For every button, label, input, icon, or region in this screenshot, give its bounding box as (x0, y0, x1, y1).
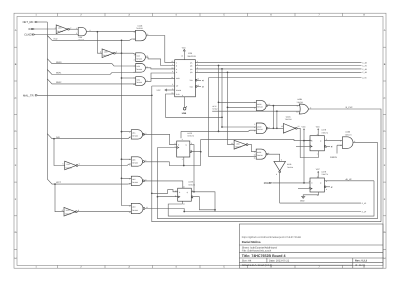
junction node U6D H2 (183, 211, 185, 213)
svg-text:W/A0: W/A0 (56, 61, 62, 64)
svg-text:10: 10 (296, 110, 298, 113)
inverter U2D 74HC04 (62, 207, 79, 216)
wire U6B out to FFA reset line (144, 162, 200, 166)
wire CLKEN to AND U3A pin2 (35, 33, 78, 35)
svg-text:U5B: U5B (182, 112, 187, 115)
svg-text:https://github.com/dmsc/timeke: https://github.com/dmsc/timekeeper/cc/74… (242, 236, 301, 239)
junction node on gateB out (273, 127, 275, 129)
svg-text:C: C (384, 97, 386, 100)
svg-text:12: 12 (197, 78, 199, 81)
wire U10 out to gate U7C in1 (248, 145, 256, 152)
wire PRE to FF2 D (272, 182, 310, 184)
wire ACT tap down to inverter U2D (55, 184, 64, 212)
bus entry wire A/B (47, 134, 131, 139)
svg-text:C_4B: C_4B (362, 71, 367, 74)
wire tap to gate U6A in1 (122, 131, 132, 133)
svg-text:2: 2 (254, 150, 255, 153)
wire to gate U7B in1 (222, 126, 256, 128)
bus entry wire W/A0 (47, 59, 135, 66)
svg-text:D: D (15, 130, 17, 133)
wire MAL_TR top to U1 UP pin (152, 85, 175, 87)
svg-text:74HC04: 74HC04 (65, 167, 71, 170)
svg-text:W/A1: W/A1 (56, 72, 62, 75)
bus entry CD (47, 36, 52, 41)
svg-text:2: 2 (254, 106, 255, 109)
wire vertical main left drop (122, 40, 132, 205)
bus entry wire W/A1 (47, 70, 135, 75)
svg-text:5: 5 (254, 129, 255, 132)
U1 TCU pin 12 (195, 78, 203, 82)
svg-text:10: 10 (129, 183, 131, 186)
svg-text:C: C (15, 97, 17, 100)
junction node QC drop (221, 68, 223, 70)
svg-text:9: 9 (281, 159, 282, 162)
junction node U3A out (97, 31, 99, 33)
wire H2 net with label (184, 210, 367, 213)
hierarchical label PRE (264, 182, 272, 185)
wire U3A out to OR U4B (87, 31, 136, 33)
junction node QB drop (218, 65, 220, 67)
hierarchical label MAL_TR (23, 94, 38, 97)
svg-text:9: 9 (297, 105, 298, 108)
svg-text:U42B: U42B (297, 98, 302, 101)
wire MAL_TR vertical long (152, 86, 381, 222)
wire FF2 Q out with label (324, 178, 374, 181)
svg-text:1: 1 (129, 131, 130, 134)
U1 CMD pin wire (151, 78, 175, 80)
svg-text:U478: U478 (321, 170, 326, 173)
nand gate U6B (129, 157, 146, 167)
wire FFB Qbar drop (193, 197, 215, 210)
svg-text:File: SubHoursUnit_a.sch: File: SubHoursUnit_a.sch (242, 250, 272, 253)
svg-text:5: 5 (63, 163, 64, 166)
svg-text:4: 4 (134, 65, 135, 68)
svg-text:74HC74: 74HC74 (321, 131, 328, 134)
power symbol VCC above U1 (182, 46, 187, 59)
wire QB drop vertical (218, 66, 220, 132)
power symbol VCC at FF1 S (316, 125, 321, 135)
border row ticks left (14, 47, 17, 249)
junction node buffer in (276, 127, 278, 129)
wire tap to gate U6C in1 (122, 177, 132, 179)
wire FFA reset stem (183, 157, 185, 166)
wire FFB D jog (152, 190, 178, 194)
wire FFA Q down to FFB Q (190, 145, 194, 192)
svg-text:3: 3 (100, 50, 101, 53)
wire U1 QB output (195, 65, 361, 67)
junction node FFB clk (157, 196, 159, 198)
junction node MAL_TR (151, 94, 153, 96)
and gate U5B (134, 64, 148, 75)
svg-text:VCC: VCC (182, 46, 187, 49)
svg-text:A/B: A/B (56, 136, 60, 139)
svg-text:C_4B: C_4B (362, 68, 367, 71)
svg-text:U478: U478 (187, 132, 192, 135)
svg-text:10: 10 (254, 153, 256, 156)
svg-text:U4C8: U4C8 (257, 125, 261, 128)
wire U8 out long with label (309, 106, 382, 222)
junction node FF2 D (303, 182, 305, 184)
svg-text:U478: U478 (188, 181, 193, 184)
svg-text:Size: A4: Size: A4 (242, 259, 252, 262)
wire FFB R to H216 to FF2 Q riser (168, 181, 374, 216)
svg-text:13: 13 (129, 211, 131, 214)
svg-text:5: 5 (134, 71, 135, 74)
junction node g2 in1 tap (121, 158, 123, 160)
wire to gate U7A in1 (219, 101, 257, 103)
svg-text:U42B: U42B (287, 163, 292, 166)
junction node H2 join (214, 209, 216, 211)
power symbol VCC mid (feeds FF1 D / FF2 D) (302, 125, 307, 183)
nand gate U6C (129, 176, 147, 186)
svg-text:1: 1 (55, 26, 56, 29)
svg-text:W/A2: W/A2 (56, 81, 62, 84)
svg-text:9: 9 (340, 140, 341, 143)
svg-text:Title: 74HC7652B Board 4: Title: 74HC7652B Board 4 (242, 254, 286, 258)
svg-text:DS/EN: DS/EN (330, 156, 337, 159)
svg-text:8: 8 (276, 173, 277, 176)
and gate U5C (133, 77, 148, 86)
svg-text:2: 2 (129, 136, 130, 139)
svg-text:74HC74: 74HC74 (187, 135, 194, 138)
svg-text:U14B: U14B (138, 24, 143, 27)
wire MAL_TR to vertical (38, 94, 152, 96)
svg-text:74HC74: 74HC74 (345, 134, 352, 137)
svg-text:E_4P: E_4P (362, 210, 367, 213)
wire row E vertical to gate U7C in2 (209, 78, 257, 157)
border row ticks right (383, 47, 386, 249)
svg-text:74HC74: 74HC74 (321, 173, 328, 176)
svg-text:U478: U478 (321, 129, 326, 132)
svg-text:11: 11 (254, 156, 256, 159)
svg-text:74HC32: 74HC32 (297, 101, 304, 104)
inverter U2B 74HC04 (100, 49, 117, 58)
svg-text:74HC04: 74HC04 (285, 118, 292, 121)
wire gate U6A out to FFA D (143, 134, 177, 144)
wire U1 QC output (195, 68, 361, 70)
svg-text:S_7B: S_7B (362, 64, 367, 67)
border column ticks bottom (58, 265, 343, 268)
wire U5C out to U1 pin D (145, 73, 174, 81)
wire NET_RD to bus (38, 21, 48, 23)
hierarchical label WR (28, 28, 34, 31)
and gate U3A 74HC08 (76, 27, 90, 42)
svg-text:74HC193: 74HC193 (187, 55, 196, 58)
svg-text:U4C8: U4C8 (257, 103, 261, 106)
svg-text:8: 8 (147, 80, 148, 83)
inverter U2A 74HC04 (55, 25, 72, 34)
junction node PL route joins QC drop (221, 116, 223, 118)
svg-text:/5_CUP: /5_CUP (346, 106, 354, 109)
svg-text:13: 13 (281, 125, 283, 128)
svg-text:Date: 2023-05-22: Date: 2023-05-22 (269, 259, 290, 262)
junction node at 121.5,78 (121, 77, 123, 79)
junction node FFA reset (183, 165, 185, 167)
svg-text:9: 9 (129, 177, 130, 180)
svg-text:VCC: VCC (157, 89, 162, 92)
svg-text:74HC08: 74HC08 (78, 38, 84, 41)
wire FFA Qbar loop down (200, 152, 202, 166)
svg-text:PRE: PRE (264, 182, 269, 185)
svg-text:H: H (384, 257, 386, 260)
wire FFA clk / FFB clk vertical (158, 148, 378, 219)
inverter U2C 74HC04 (63, 161, 80, 170)
wire FFA Qbar up and right to FF1 D (192, 140, 312, 152)
svg-text:11: 11 (231, 142, 233, 145)
svg-text:/ACT: /ACT (56, 181, 62, 184)
svg-text:3: 3 (254, 123, 255, 126)
wire U4B out right and down to U1 pin A (146, 36, 174, 63)
junction node CD at vertical (121, 39, 123, 41)
bus entry wire ACT (47, 179, 131, 184)
wire U5B out to U1 pin C (145, 68, 174, 69)
svg-text:VCC: VCC (316, 168, 321, 171)
svg-text:VCC: VCC (316, 125, 321, 128)
svg-text:2: 2 (134, 59, 135, 62)
wire U1 QA output (195, 61, 361, 63)
U1 GND pin stub with unconnect circle (182, 97, 187, 115)
svg-text:2: 2 (76, 32, 77, 35)
svg-text:C_4B: C_4B (362, 61, 367, 64)
svg-text:U42A: U42A (286, 115, 291, 118)
flip-flop FF1 U13A 74HC74 (309, 129, 328, 156)
border column ticks top (58, 13, 343, 16)
svg-text:74HC04: 74HC04 (103, 54, 109, 57)
svg-text:5: 5 (129, 163, 130, 166)
wire VCC branch to FF1 D (304, 140, 310, 142)
svg-text:9: 9 (134, 77, 135, 80)
svg-text:12: 12 (298, 125, 300, 128)
wire QD drop vertical (228, 72, 235, 144)
wire U2C out to gate U6B in2 (78, 164, 131, 166)
and gate U7C (254, 149, 270, 159)
junction node OR U8 in2 (276, 110, 278, 112)
flip-flop FFA U12A 74HC74 (175, 132, 194, 161)
svg-text:E_4P: E_4P (362, 202, 367, 205)
flip-flop FF2 U13B 74HC74 (309, 170, 328, 197)
junction node U7A out (273, 105, 275, 107)
wire U6C out to FFB S pin (144, 181, 182, 188)
junction node FFA Qbar (200, 151, 202, 153)
svg-text:MAL_TR: MAL_TR (23, 94, 34, 97)
junction node B drop bottom (218, 131, 220, 133)
inverter U11 pointing down (274, 159, 293, 176)
svg-text:G: G (15, 231, 17, 234)
and gate U5A (134, 53, 148, 62)
svg-text:4: 4 (129, 158, 130, 161)
wire U14 in2 from below label (330, 145, 342, 159)
and gate U7A (254, 101, 270, 111)
svg-text:74HC2: 74HC2 (212, 107, 217, 110)
svg-text:1: 1 (254, 101, 255, 104)
wire U5A out to U1 pin B (145, 57, 174, 65)
wire U7B out to buffer U9 (268, 127, 283, 129)
wire U2D out to gate U6D in2 (77, 211, 131, 213)
wire FF2 Qbar stub with arrow (326, 186, 332, 188)
title block (239, 224, 383, 268)
junction node FFB Q (193, 191, 195, 193)
bus vertical left (46, 22, 48, 179)
wire to gate U7A in2 (228, 106, 257, 108)
svg-text:10: 10 (133, 83, 135, 86)
hierarchical label CLKEN (24, 34, 35, 37)
junction node gateB in1 (221, 126, 223, 128)
wire row E net (209, 77, 362, 79)
svg-text:H: H (15, 257, 17, 260)
border column numbers (35, 14, 365, 269)
svg-text:VCC: VCC (302, 125, 307, 128)
or gate U8 (296, 98, 311, 114)
wire U2B out to gate U5A (115, 53, 135, 54)
svg-text:U4C8: U4C8 (257, 151, 261, 154)
nand gate U6D (129, 203, 148, 214)
wire U9 out down to FF1 reset (297, 128, 318, 157)
ground symbol GND (300, 196, 305, 202)
svg-text:Id: 31/32: Id: 31/32 (355, 264, 366, 267)
wire A/B tap down to inverter U2C (54, 139, 65, 166)
junction node gateA in2 (227, 107, 229, 109)
svg-text:10: 10 (134, 31, 136, 34)
svg-text:1: 1 (134, 53, 135, 56)
border row letters (15, 29, 386, 260)
wire FF2 clk stub (298, 188, 310, 190)
wire OR U8 in2 net with label (212, 105, 300, 111)
wire tap to gate U6B in1 (122, 158, 132, 160)
junction node A/B tap (53, 138, 55, 140)
svg-text:74HC74: 74HC74 (188, 183, 195, 186)
wire FFB Q to H2 (191, 192, 215, 212)
svg-text:12: 12 (129, 205, 131, 208)
wire U7A out to OR U8 (268, 105, 300, 107)
wire branch up to OR U8 in2 (276, 111, 278, 128)
wire U14 out to right drop (353, 143, 378, 219)
wire U7A out branch down (272, 106, 274, 128)
svg-text:U42B: U42B (345, 131, 350, 134)
svg-text:Daniel Molina: Daniel Molina (242, 240, 261, 244)
svg-text:74HC08: 74HC08 (136, 27, 143, 30)
wire U1 PL pin to lower route (166, 94, 223, 117)
U1 TCD pin 13 (195, 84, 203, 88)
junction node VCC to FF1 D (303, 140, 305, 142)
svg-text:45_UP: 45_UP (346, 178, 353, 181)
counter IC U1 74HC193 (172, 52, 199, 97)
junction node ACT tap (54, 183, 56, 185)
junction node gateA in1 (218, 101, 220, 103)
wire WR to inverter U2A (35, 28, 57, 30)
power symbol VCC at FF2 S (316, 168, 321, 178)
svg-text:Rev: 0.2.2: Rev: 0.2.2 (355, 259, 368, 262)
power symbol VCC at U1 DOWN pin (157, 89, 175, 92)
junction node U2B out (121, 52, 123, 54)
wire U7C out to down-inverter (268, 154, 280, 161)
wire U1 QD output (195, 71, 361, 73)
junction node g3 in1 tap (121, 177, 123, 179)
wire FF1 Q to AND U14 (324, 140, 342, 142)
wire U6D out joins H2 (145, 209, 184, 212)
svg-text:KiCad E.D.A. kicad (6.0.5): KiCad E.D.A. kicad (6.0.5) (242, 264, 272, 267)
buffer U9 74HC04 big (281, 115, 299, 133)
svg-text:74HC04: 74HC04 (57, 30, 63, 33)
wire FF2 R to GND (303, 192, 318, 196)
svg-text:GND: GND (300, 199, 305, 202)
svg-text:1: 1 (76, 27, 77, 30)
junction node QD drop (227, 71, 229, 73)
svg-text:3: 3 (145, 132, 146, 135)
wire FFB clk stub (158, 196, 178, 198)
bus entry wire W/A2 (47, 79, 135, 84)
svg-text:G: G (384, 231, 386, 234)
svg-text:10: 10 (340, 144, 342, 147)
svg-text:D: D (384, 130, 386, 133)
wire inverter out to AND U3A (69, 28, 78, 30)
wire 131.4 to FFA S pin and right to gateB in2 (181, 130, 256, 138)
junction node g1 in1 tap (121, 131, 123, 133)
wire H1 bottom net with label (280, 202, 367, 205)
wire FF1 Qbar stub with arrow (326, 146, 332, 148)
svg-text:6: 6 (145, 159, 146, 162)
wire FF1 clk stub (296, 145, 310, 147)
wire QC drop vertical (221, 69, 223, 127)
svg-text:74HC04: 74HC04 (65, 213, 71, 216)
svg-text:9: 9 (62, 209, 63, 212)
svg-text:13: 13 (197, 84, 199, 87)
nand gate U6A (129, 130, 146, 140)
wire junction down to inverter U2B (97, 32, 102, 54)
junction node FFB D tap (151, 192, 153, 194)
svg-text:CLKEN: CLKEN (24, 34, 33, 37)
svg-text:4: 4 (254, 126, 255, 129)
svg-text:74HC04: 74HC04 (287, 166, 293, 169)
and gate U7B (254, 123, 269, 134)
svg-text:NET_RD: NET_RD (23, 21, 34, 24)
wire junction to U5C in1 (122, 77, 136, 79)
svg-text:9: 9 (134, 38, 135, 41)
and gate U14 74HC08 right (340, 131, 356, 149)
wire U11 out down to H1 (279, 173, 281, 203)
hierarchical label NET_RD (23, 21, 38, 24)
small buffer U10 (231, 140, 248, 149)
flip-flop FFB U12B 74HC74 (175, 181, 195, 206)
wire CD (52, 39, 136, 40)
or gate U4B 74HC08 top (134, 24, 149, 41)
